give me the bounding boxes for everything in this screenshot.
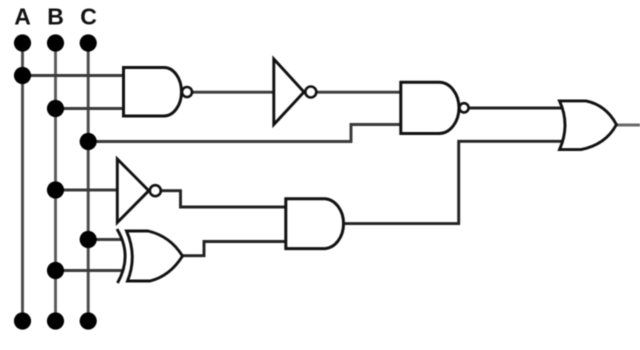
wire NOT1 output to NAND2 input 1 bbox=[317, 91, 403, 94]
junction dot A row1 bbox=[14, 67, 31, 84]
NOT gate U2 bubble bbox=[305, 87, 316, 98]
wire C to NAND2 input 2 bbox=[88, 125, 403, 142]
junction dot A bottom bbox=[14, 312, 31, 329]
XOR gate U6 body bbox=[127, 231, 183, 281]
junction dot B row6 bbox=[47, 262, 64, 279]
NAND gate U3 bubble bbox=[459, 103, 468, 112]
wire AND1 output to OR1 input 2 bbox=[345, 141, 564, 223]
junction dot B top bbox=[47, 34, 64, 51]
junction dot B bottom bbox=[47, 312, 64, 329]
NOT gate U5 bubble bbox=[150, 185, 161, 196]
svg-text:A: A bbox=[14, 4, 31, 30]
junction dot B row2 bbox=[47, 100, 64, 117]
wire rail C vertical bbox=[87, 43, 90, 321]
NAND gate U1 body bbox=[124, 68, 182, 117]
NAND gate U1 bubble bbox=[182, 87, 192, 97]
NOT gate U5 triangle bbox=[117, 159, 149, 223]
wire C to XOR input 1 bbox=[88, 238, 121, 241]
wire XOR output to AND1 input 2 bbox=[182, 242, 287, 256]
wire rail A vertical bbox=[21, 43, 24, 321]
svg-text:B: B bbox=[47, 4, 64, 30]
XOR gate U6 back arc bbox=[117, 229, 125, 283]
junction dot C bottom bbox=[80, 312, 97, 329]
NOT gate U2 triangle bbox=[274, 59, 304, 125]
svg-text:C: C bbox=[80, 4, 97, 30]
wire B to NAND1 input 2 bbox=[56, 107, 127, 110]
wire OR1 output bbox=[615, 124, 640, 127]
junction dot C top bbox=[80, 34, 97, 51]
junction dot A top bbox=[14, 34, 31, 51]
wire B to XOR input 2 bbox=[56, 269, 123, 272]
wire rail B vertical bbox=[54, 43, 57, 321]
wire NAND2 output to OR1 input 1 bbox=[468, 107, 564, 110]
OR gate U4 body bbox=[560, 101, 617, 150]
wire NOT2 output to AND1 input 1 bbox=[161, 191, 288, 207]
wire NAND1 output to NOT1 input bbox=[192, 91, 274, 94]
AND gate U7 body bbox=[286, 199, 344, 249]
NAND gate U3 body bbox=[401, 82, 459, 133]
junction dot B row4 bbox=[47, 181, 64, 198]
wire A to NAND1 input 1 bbox=[23, 74, 127, 77]
junction dot C row3 bbox=[80, 133, 97, 150]
wire B to NOT2 input bbox=[56, 189, 120, 192]
junction dot C row5 bbox=[80, 231, 97, 248]
